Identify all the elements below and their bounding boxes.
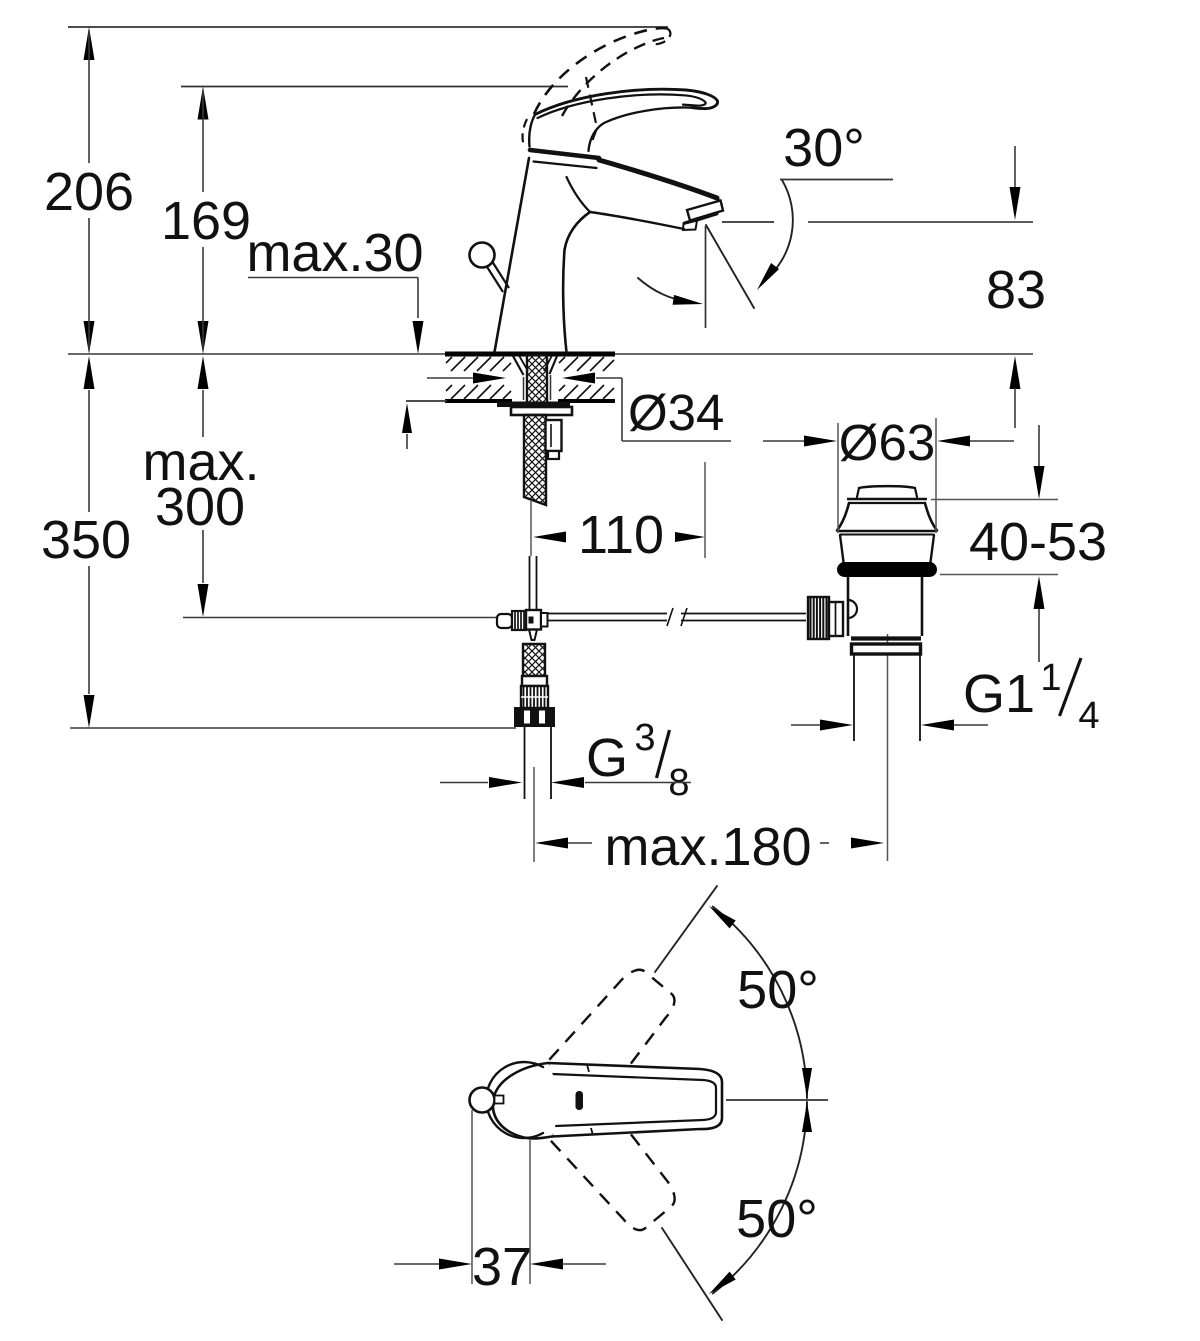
svg-text:max.30: max.30 [246,223,423,283]
svg-text:G1: G1 [963,664,1035,724]
svg-text:3: 3 [634,717,655,759]
svg-text:Ø34: Ø34 [628,384,724,441]
svg-text:40-53: 40-53 [969,512,1107,572]
svg-text:169: 169 [161,191,251,251]
svg-text:max.180: max.180 [604,817,811,877]
svg-text:37: 37 [472,1237,532,1297]
svg-text:110: 110 [578,505,664,565]
svg-text:30°: 30° [783,118,865,178]
svg-text:50°: 50° [737,960,819,1020]
svg-text:G: G [586,728,628,788]
svg-text:Ø63: Ø63 [839,414,935,471]
svg-text:50°: 50° [736,1189,818,1249]
svg-text:350: 350 [41,510,131,570]
svg-text:83: 83 [986,260,1046,320]
svg-text:300: 300 [155,477,245,537]
svg-text:1: 1 [1040,657,1061,699]
svg-text:4: 4 [1078,695,1099,737]
svg-text:206: 206 [44,162,134,222]
